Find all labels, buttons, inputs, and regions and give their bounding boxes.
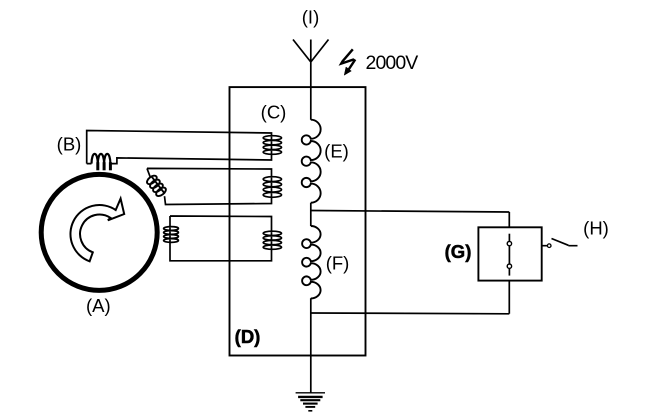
svg-text:(G): (G) [445,241,472,262]
svg-text:(B): (B) [57,133,82,154]
svg-text:(A): (A) [86,295,111,316]
svg-text:(F): (F) [326,252,350,273]
svg-text:(H): (H) [583,217,609,238]
svg-text:(D): (D) [235,326,261,347]
svg-text:(C): (C) [261,101,287,122]
svg-text:2000V: 2000V [366,52,419,74]
svg-text:(I): (I) [302,6,319,27]
svg-text:(E): (E) [324,141,349,162]
